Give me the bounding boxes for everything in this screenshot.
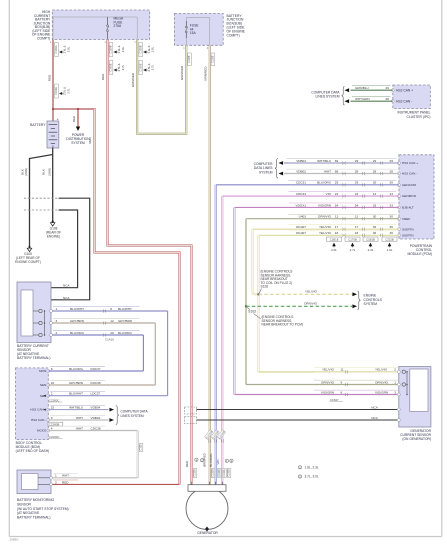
wire WHT BCM pin9 VDB02 to data lines <box>48 416 114 422</box>
label BLU/ORG at generator <box>209 453 213 467</box>
callout connector C103E on GRN/RED wire <box>138 61 154 75</box>
svg-text:2989G: 2989G <box>10 538 20 542</box>
label POWER DISTRIBUTION SYSTEM <box>66 133 90 145</box>
connector boxed labels above generator connector <box>193 469 231 478</box>
svg-text:C103B: C103B <box>138 45 142 53</box>
label BATTERY MONITORING SENSOR <box>17 498 69 520</box>
wire BLU/ORG BCM pin8 KDC37 <box>48 367 143 371</box>
wire BRN/RED fuse 44 to generator A terminal <box>209 45 211 484</box>
svg-text:4: 4 <box>51 426 53 430</box>
label RED on generator B+ wire <box>101 73 105 80</box>
svg-text:ORN/VIO: ORN/VIO <box>304 302 318 306</box>
label RED on power distribution stub <box>72 115 76 122</box>
connector label C103B on fuse44 right pin <box>211 53 215 66</box>
battery junction box FUSE 44 15A <box>174 14 223 51</box>
powertrain control module PCM <box>397 155 434 239</box>
svg-text:33: 33 <box>373 203 377 207</box>
svg-text:24: 24 <box>355 192 359 196</box>
svg-text:C2280C: C2280C <box>49 398 60 402</box>
wire WHT/BLU PCM row VDB04 <box>285 159 399 165</box>
wire BLU/WHT BCM pin2 LDC37 <box>48 391 167 395</box>
battery current sensor <box>17 282 51 343</box>
wire GRN/BLU IPC HS2 CAN+ <box>345 86 393 92</box>
svg-text:RED: RED <box>48 74 52 81</box>
svg-text:RED: RED <box>72 115 76 122</box>
svg-text:69: 69 <box>335 159 339 163</box>
svg-text:29: 29 <box>373 159 377 163</box>
wire YEL/VIO PCM row RG407 <box>253 225 399 231</box>
wire BLU/ORG PCM row CDC31 <box>216 180 399 186</box>
svg-text:U403: U403 <box>299 215 307 219</box>
svg-text:BRN/RED: BRN/RED <box>204 66 208 81</box>
svg-text:17: 17 <box>335 225 339 229</box>
svg-text:3.7L: 3.7L <box>121 64 125 70</box>
svg-text:WHT: WHT <box>62 474 69 478</box>
svg-text:2: 2 <box>51 392 53 396</box>
label BODY CONTROL MODULE (BCM) <box>16 441 50 453</box>
svg-text:VIO/GRN: VIO/GRN <box>375 390 388 394</box>
svg-text:28: 28 <box>373 169 377 173</box>
svg-text:C103E: C103E <box>109 63 113 71</box>
svg-text:WHT: WHT <box>324 169 331 173</box>
svg-text:2.3L: 2.3L <box>368 248 374 252</box>
label BATTERY CURRENT SENSOR <box>17 344 50 360</box>
svg-text:BLU/ORG: BLU/ORG <box>69 367 84 371</box>
svg-text:RED: RED <box>101 73 105 80</box>
svg-text:ORN/VIO: ORN/VIO <box>375 380 389 384</box>
svg-text:HS2 CAN -: HS2 CAN - <box>396 99 412 103</box>
label BLK on right negative cable <box>41 168 51 176</box>
svg-text:YEL/VIO: YEL/VIO <box>319 225 332 229</box>
svg-text:29: 29 <box>355 181 359 185</box>
svg-text:17: 17 <box>355 225 359 229</box>
callout connector C103B on GRN/RED wire <box>138 43 154 57</box>
connector label C2280B boxed <box>48 422 63 426</box>
svg-text:BATTERY MONITORING: BATTERY MONITORING <box>17 498 55 502</box>
svg-text:54: 54 <box>335 203 339 207</box>
generator current sensor <box>397 367 431 427</box>
svg-text:ENGINE COMPT): ENGINE COMPT) <box>15 260 41 264</box>
svg-text:9: 9 <box>341 380 343 384</box>
direction arrow BCM HS3 CAN pin <box>43 409 46 411</box>
svg-text:30: 30 <box>389 215 393 219</box>
svg-text:BLU/WHT: BLU/WHT <box>69 392 83 396</box>
ground G105 <box>15 246 41 264</box>
svg-text:2.7L: 2.7L <box>350 248 356 252</box>
svg-text:RED: RED <box>62 480 69 484</box>
wire NCA generator current sensor 2 <box>197 416 399 421</box>
wire WHT BCM pin4 CDC38 to battery monitoring sensor <box>48 426 137 478</box>
svg-text:WHT: WHT <box>76 416 83 420</box>
wire ORN/VIO PCM row U403 <box>246 214 399 220</box>
svg-text:C103B: C103B <box>188 55 191 63</box>
ground G108 <box>46 220 61 238</box>
svg-text:15A: 15A <box>190 31 197 35</box>
wire GRY/BRN battery current sensor pin3 to BCM <box>50 319 156 385</box>
svg-text:BLU/WHT: BLU/WHT <box>70 307 84 311</box>
svg-text:33: 33 <box>389 203 393 207</box>
svg-text:YEL/VIO: YEL/VIO <box>375 368 388 372</box>
svg-text:KDC37: KDC37 <box>91 367 101 371</box>
wire VIO/GRN to generator current sensor <box>234 390 398 396</box>
wire YEL/VIO to generator current sensor <box>259 367 399 373</box>
svg-text:14: 14 <box>373 192 377 196</box>
instrument panel cluster IPC <box>391 85 430 109</box>
connector label C2280C upper <box>49 398 63 402</box>
svg-text:12: 12 <box>110 319 114 323</box>
svg-text:BJB ALT: BJB ALT <box>402 206 414 210</box>
svg-text:C175B: C175B <box>348 237 357 241</box>
connector label on LIN wire <box>139 444 143 452</box>
svg-text:4: 4 <box>207 47 209 50</box>
svg-text:VDB04: VDB04 <box>91 406 101 410</box>
inline connector labels C1035B on generator wires <box>204 430 225 443</box>
label RED on battery feed wire <box>48 74 52 81</box>
label: BATTERY JUNCTION BOX (BJB) <box>227 14 246 38</box>
callout connector C103A on battery feed wire <box>54 43 70 57</box>
brace and label COMPUTER DATA LINES SYSTEM at IPC <box>311 87 344 105</box>
splice S128 on YEL/VIO <box>257 293 259 295</box>
svg-text:C102B: C102B <box>218 469 221 477</box>
svg-text:BLK: BLK <box>20 169 24 175</box>
svg-text:ENGINE): ENGINE) <box>47 235 60 239</box>
svg-text:SYSTEM: SYSTEM <box>71 141 85 145</box>
label VIO at generator <box>216 459 220 465</box>
svg-text:VIO: VIO <box>326 192 332 196</box>
svg-text:ORN/VIO: ORN/VIO <box>318 215 332 219</box>
brace and label COMPUTER DATA LINES SYSTEM at PCM <box>254 159 278 179</box>
svg-text:NCA: NCA <box>371 406 378 410</box>
label GRN/RED on mega fuse output wire <box>131 72 135 87</box>
svg-text:VREF: VREF <box>402 217 410 221</box>
svg-text:2.0L: 2.0L <box>331 248 337 252</box>
direction arrow BCM SEN pin <box>43 395 46 397</box>
wire NCA generator current sensor 1 <box>197 405 399 410</box>
svg-text:VDB02: VDB02 <box>296 169 306 173</box>
arrows to computer data lines at PCM <box>279 161 289 175</box>
wire VIO GENMON vertical to generator <box>221 196 223 485</box>
svg-text:C1B1B: C1B1B <box>366 237 375 241</box>
footnote 2 engines <box>298 475 319 479</box>
svg-text:1: 1 <box>134 41 136 44</box>
svg-text:C103E: C103E <box>138 63 142 71</box>
connector label C1A16 <box>105 338 114 342</box>
label BRN/RED at generator <box>203 452 207 466</box>
wire WHT PCM row VDB02 <box>285 169 399 175</box>
svg-text:11: 11 <box>355 215 358 219</box>
svg-text:HS3 CAN -: HS3 CAN - <box>31 418 46 422</box>
svg-text:2: 2 <box>56 331 58 335</box>
svg-text:SEN: SEN <box>40 383 46 387</box>
svg-text:GENMON: GENMON <box>402 194 416 198</box>
svg-text:18: 18 <box>355 231 359 235</box>
svg-text:GENERATOR: GENERATOR <box>197 531 218 535</box>
wire BLK battery negative branch to ground G105 <box>30 155 53 247</box>
svg-text:LINES SYSTEM: LINES SYSTEM <box>121 414 145 418</box>
svg-text:COMPT): COMPT) <box>227 33 240 37</box>
svg-text:MODULE (PCM): MODULE (PCM) <box>407 252 432 256</box>
svg-text:CDC33: CDC33 <box>296 192 306 196</box>
label: HIGH CURRENT BATTERY JUNCTION BOX <box>32 10 51 40</box>
svg-text:VIO/GRN: VIO/GRN <box>318 203 331 207</box>
svg-text:30: 30 <box>389 181 393 185</box>
svg-text:VIO: VIO <box>216 459 220 465</box>
brace and label COMPUTER DATA LINES SYSTEM at BCM <box>116 406 149 425</box>
svg-text:CDC38: CDC38 <box>91 426 101 430</box>
svg-text:LDC37: LDC37 <box>91 392 101 396</box>
svg-text:LINES SYSTEM: LINES SYSTEM <box>315 95 339 99</box>
wire ORN/VIO to generator current sensor <box>246 380 399 386</box>
svg-text:2: 2 <box>394 368 396 372</box>
label splice S163 harness note <box>247 307 303 326</box>
svg-text:S163: S163 <box>248 310 256 314</box>
svg-text:RG407: RG407 <box>296 231 306 235</box>
svg-text:36: 36 <box>373 231 377 235</box>
wire BLU/ORG battery current sensor pin2 to BCM <box>50 331 144 371</box>
svg-text:CLUSTER (IPC): CLUSTER (IPC) <box>407 115 431 119</box>
svg-text:YEL/VIO: YEL/VIO <box>319 231 332 235</box>
wire WHT battery monitoring sensor pin1 <box>50 473 138 479</box>
wire YEL/VIO PCM row RG407 <box>259 231 399 237</box>
callout connector C103E on battery feed wire <box>54 84 70 98</box>
wire RED battery branch to x=94.5 then down to monitoring sensor feed <box>53 109 180 484</box>
svg-text:RED: RED <box>185 460 189 467</box>
wire RED BJB pin2 to generator B+ <box>108 40 192 485</box>
svg-text:ORN/VIO: ORN/VIO <box>321 380 335 384</box>
callout connector C103B on generator B+ wire <box>109 43 125 57</box>
wire NCA battery current sensor loop 1 <box>51 210 78 288</box>
body control module BCM <box>16 368 50 440</box>
svg-text:20: 20 <box>110 331 114 335</box>
svg-text:29: 29 <box>386 86 390 90</box>
label GENERATOR <box>197 531 218 535</box>
connector label C103B on fuse44 left pin <box>188 53 192 66</box>
svg-text:30: 30 <box>373 181 377 185</box>
svg-text:SENSOR: SENSOR <box>17 502 32 506</box>
svg-text:GRN/RED: GRN/RED <box>131 72 135 87</box>
svg-text:275A: 275A <box>114 24 123 28</box>
svg-text:1: 1 <box>394 380 396 384</box>
svg-text:GRY/BRN: GRY/BRN <box>69 381 83 385</box>
svg-text:6: 6 <box>341 390 343 394</box>
svg-text:SYSTEM: SYSTEM <box>364 302 378 306</box>
svg-text:10: 10 <box>51 381 55 385</box>
svg-text:3.7L, 3.0L: 3.7L, 3.0L <box>305 475 319 479</box>
svg-text:14: 14 <box>389 192 393 196</box>
svg-text:WHT/GRN: WHT/GRN <box>355 97 370 101</box>
svg-text:11: 11 <box>335 215 338 219</box>
wire GRN/RED mega fuse to fuse 44 <box>137 40 186 134</box>
svg-text:(ON GENERATOR): (ON GENERATOR) <box>402 437 431 441</box>
svg-text:BLU/ORG: BLU/ORG <box>70 331 85 335</box>
svg-text:COMPUTER DATA: COMPUTER DATA <box>121 410 149 414</box>
svg-text:VIO/GRN: VIO/GRN <box>321 390 334 394</box>
svg-text:+: + <box>57 117 59 121</box>
wire WHT/BLU BCM pin15 VDB04 to data lines <box>48 405 114 411</box>
svg-text:BLU/ORG: BLU/ORG <box>118 331 133 335</box>
svg-text:36: 36 <box>389 231 393 235</box>
wire RED battery monitoring sensor pin2 <box>50 480 180 486</box>
svg-text:11: 11 <box>341 368 344 372</box>
svg-text:C103E: C103E <box>54 87 58 95</box>
svg-text:3: 3 <box>394 390 396 394</box>
label BLK on left negative cable <box>20 168 28 176</box>
svg-text:GRN/RED: GRN/RED <box>180 65 184 80</box>
svg-text:3.7L: 3.7L <box>151 64 155 70</box>
wire GRY/BRN BCM pin10 KDC38 <box>48 381 155 385</box>
svg-text:C102A: C102A <box>223 469 226 477</box>
wire WHT/GRN IPC HS2 CAN- <box>345 97 393 103</box>
svg-text:(AT NEGATIVE: (AT NEGATIVE <box>17 511 40 515</box>
label splice S128 harness note <box>259 270 292 294</box>
svg-text:C102B: C102B <box>212 469 215 477</box>
svg-text:HS2 CAN +: HS2 CAN + <box>396 88 413 92</box>
wire BLK battery negative to ground G108 <box>52 148 54 221</box>
svg-text:YEL/VIO: YEL/VIO <box>305 290 318 294</box>
svg-text:BATTERY TERMINAL): BATTERY TERMINAL) <box>17 516 50 520</box>
svg-text:2.0L: 2.0L <box>151 46 155 52</box>
dashed attachment lines on negative cables <box>24 198 59 210</box>
label POWERTRAIN CONTROL MODULE (PCM) <box>407 244 432 256</box>
svg-text:C103A: C103A <box>54 45 58 53</box>
svg-text:29: 29 <box>355 159 359 163</box>
svg-text:HS3 CAN -: HS3 CAN - <box>402 172 417 176</box>
svg-text:C222B: C222B <box>385 237 394 241</box>
label GENERATOR CURRENT SENSOR <box>400 429 432 441</box>
svg-text:68: 68 <box>335 169 339 173</box>
svg-text:C102B: C102B <box>228 469 231 477</box>
svg-text:KDC38: KDC38 <box>91 381 101 385</box>
svg-text:28: 28 <box>386 97 390 101</box>
svg-text:C103B: C103B <box>212 55 215 63</box>
svg-text:1.6L: 1.6L <box>387 248 393 252</box>
wire VIO PCM row CDC33 <box>222 192 399 198</box>
svg-text:2: 2 <box>55 480 57 484</box>
wire RED BJB pin1 to battery positive <box>52 40 54 122</box>
svg-text:C103: C103 <box>140 444 143 450</box>
callout connector C103E on generator B+ wire <box>109 61 125 75</box>
svg-text:SIGRTN: SIGRTN <box>402 227 414 231</box>
svg-text:WHT/BLU: WHT/BLU <box>317 159 331 163</box>
wire YEL/VIO SIGRTN 2 vertical to generator current sensor <box>258 235 260 372</box>
svg-text:28: 28 <box>355 169 359 173</box>
svg-text:VDB04: VDB04 <box>296 159 306 163</box>
svg-text:NEAR BREAKOUT TO PCM): NEAR BREAKOUT TO PCM) <box>262 323 303 327</box>
svg-text:WHT: WHT <box>76 426 83 430</box>
svg-text:54: 54 <box>355 203 359 207</box>
PCM connector labels C1B18 C175B C1B1B C222B with engine variants <box>327 237 398 252</box>
svg-text:COMPT): COMPT) <box>37 36 50 40</box>
wire ORN/VIO VREF vertical to generator current sensor <box>245 219 247 385</box>
svg-text:VDOX1: VDOX1 <box>296 203 307 207</box>
svg-text:BATTERY: BATTERY <box>30 123 46 127</box>
svg-text:BATTERY TERMINAL): BATTERY TERMINAL) <box>17 356 50 360</box>
svg-text:(W/ AUTO START STOP SYSTEM): (W/ AUTO START STOP SYSTEM) <box>17 507 69 511</box>
svg-text:9: 9 <box>51 416 53 420</box>
circled footnote markers at generator wires <box>195 458 233 463</box>
wire BLU/WHT battery current sensor pin1 to BCM <box>50 307 168 396</box>
svg-text:GRY/BRN: GRY/BRN <box>70 319 84 323</box>
label NCA 1 <box>63 283 74 288</box>
wire VIO/GRN PCM row VDOX1 <box>234 203 399 209</box>
svg-text:NCA: NCA <box>63 296 70 300</box>
connector label C2280C lower <box>49 435 63 439</box>
svg-text:30: 30 <box>373 215 377 219</box>
svg-text:BLK: BLK <box>41 169 45 175</box>
svg-text:YEL/VIO: YEL/VIO <box>322 368 335 372</box>
splice S163 on ORN/VIO <box>245 305 247 307</box>
label GRN/RED on fuse 44 left leg <box>180 65 184 80</box>
svg-text:MCKO: MCKO <box>37 429 47 433</box>
svg-text:8: 8 <box>51 367 53 371</box>
battery <box>47 117 59 148</box>
svg-text:18: 18 <box>335 231 339 235</box>
svg-text:GRY/BRN: GRY/BRN <box>118 319 132 323</box>
high current battery junction box (BJB) with MEGA FUSE 275A <box>50 10 150 44</box>
svg-text:1: 1 <box>183 47 185 50</box>
svg-text:GRN/BLU: GRN/BLU <box>355 86 369 90</box>
svg-text:RG407: RG407 <box>296 225 306 229</box>
svg-text:(2989): (2989) <box>24 168 28 176</box>
footnote 1 engines <box>298 465 319 469</box>
svg-text:HS3 CAN +: HS3 CAN + <box>402 161 418 165</box>
svg-text:1: 1 <box>56 307 58 311</box>
wire YEL/VIO dashed to engine controls <box>259 290 358 297</box>
brace and label ENGINE CONTROLS SYSTEM <box>357 291 382 310</box>
svg-text:MON: MON <box>39 369 46 373</box>
svg-text:BLU/WHT: BLU/WHT <box>118 307 132 311</box>
svg-text:1.6L, 2.3L: 1.6L, 2.3L <box>305 466 319 470</box>
svg-text:BLU/ORG: BLU/ORG <box>209 453 213 467</box>
wire RED stub to power distribution arrow <box>52 108 80 131</box>
svg-text:36: 36 <box>389 225 393 229</box>
svg-text:2.0L: 2.0L <box>67 46 71 52</box>
svg-text:8: 8 <box>110 307 112 311</box>
svg-text:36: 36 <box>373 225 377 229</box>
svg-text:1: 1 <box>55 474 57 478</box>
generator <box>186 482 228 532</box>
svg-text:NCA: NCA <box>63 284 70 288</box>
svg-text:WHT/BLU: WHT/BLU <box>69 406 83 410</box>
svg-text:1: 1 <box>105 41 107 44</box>
svg-text:24: 24 <box>335 192 339 196</box>
label RED at generator <box>185 460 189 467</box>
wire NCA battery current sensor loop 2 <box>51 198 90 300</box>
svg-text:(2989): (2989) <box>47 168 51 176</box>
svg-text:S128: S128 <box>261 285 269 289</box>
svg-text:(LEFT END OF DASH): (LEFT END OF DASH) <box>16 449 50 453</box>
svg-text:29: 29 <box>335 181 339 185</box>
svg-text:3.7L: 3.7L <box>67 88 71 94</box>
label BRN/RED on fuse 44 output wire <box>204 66 208 81</box>
wire VIO/GRN BJB ALT vertical to generator current sensor <box>233 207 235 394</box>
svg-text:VDB02: VDB02 <box>91 416 101 420</box>
svg-text:C102A: C102A <box>194 469 197 477</box>
svg-text:NCA: NCA <box>371 416 378 420</box>
svg-text:C1A16: C1A16 <box>105 338 114 342</box>
svg-text:C1B18: C1B18 <box>330 237 339 241</box>
battery monitoring sensor <box>17 470 51 494</box>
svg-text:GENCOM: GENCOM <box>402 183 416 187</box>
dashed pickup boxes on generator B+ wire <box>185 407 197 424</box>
label BATTERY <box>30 123 46 127</box>
svg-text:1: 1 <box>50 41 52 44</box>
label NCA 2 <box>63 295 74 300</box>
svg-text:C103B: C103B <box>109 45 113 53</box>
svg-text:SIGRTN: SIGRTN <box>402 233 414 237</box>
svg-text:3: 3 <box>56 319 58 323</box>
svg-text:BLU/ORG: BLU/ORG <box>317 181 332 185</box>
